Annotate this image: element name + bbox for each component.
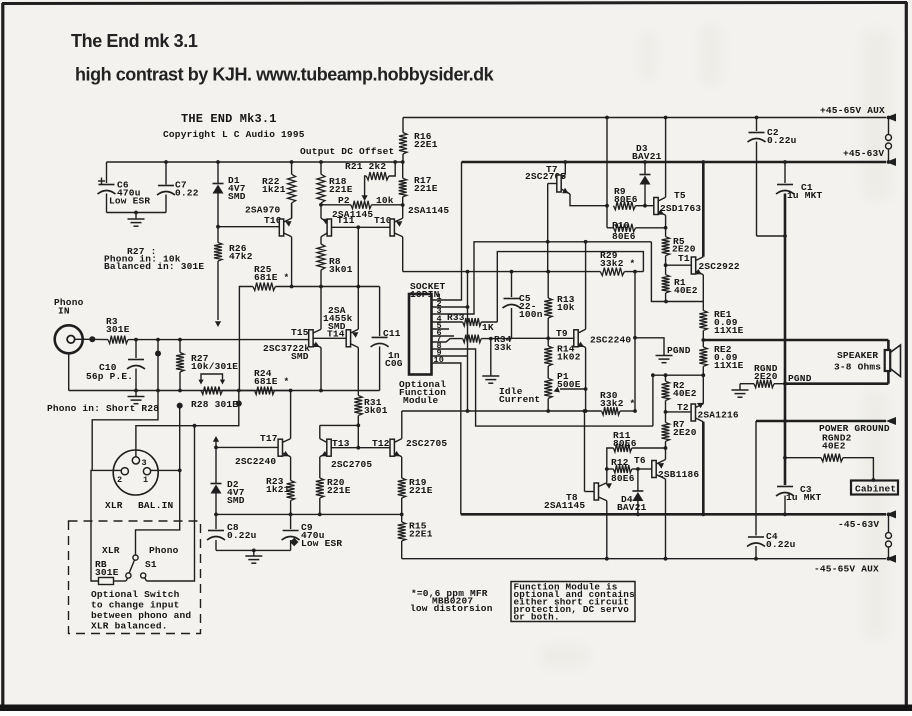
wire: output DC offset row [107,161,404,163]
svg-text:3k01: 3k01 [329,264,353,275]
wire pin1 to +rail [432,162,462,300]
wire R2 node row [653,374,703,376]
-45-63V rail [461,513,886,516]
resistor R24 [255,387,275,395]
wire R29/R30 column [634,272,636,411]
resistor R27 [179,340,181,353]
svg-text:33k: 33k [494,342,512,353]
wire phono ground to lower row [68,353,70,390]
svg-text:T17: T17 [260,433,278,444]
resistor R14 [547,338,549,346]
svg-text:XLR: XLR [105,500,123,511]
svg-text:R12: R12 [611,457,629,468]
svg-text:1k21: 1k21 [262,184,286,195]
resistor R3 [108,336,128,344]
wire T16 base [218,226,279,228]
svg-text:3-8 Ohms: 3-8 Ohms [834,362,881,373]
svg-text:2SA1145: 2SA1145 [544,500,585,511]
zener D1 [217,162,219,183]
svg-text:2SC2705: 2SC2705 [406,438,447,449]
svg-text:1k21: 1k21 [266,484,290,495]
resistor R9 [614,202,636,210]
capacitor C5 [511,272,513,297]
capacitor C11 [379,287,381,337]
svg-text:1K: 1K [482,322,494,333]
svg-text:Phono in: Short R28: Phono in: Short R28 [47,403,159,414]
wire C8 to R15 row [216,513,402,515]
svg-text:C0G: C0G [385,358,403,369]
svg-text:Output DC Offset: Output DC Offset [300,146,394,157]
XLR connector [113,450,158,495]
resistor R20 [316,478,324,498]
R28 short bracket [201,374,223,381]
svg-text:1u MKT: 1u MKT [787,190,823,201]
resistor R26 [217,227,219,243]
svg-text:The End mk 3.1: The End mk 3.1 [71,31,198,51]
svg-text:Optional Switch: Optional Switch [91,589,180,600]
svg-text:301E: 301E [95,567,119,578]
svg-text:T10: T10 [374,215,392,226]
svg-text:PGND: PGND [788,373,812,384]
wire T11/T10 base row [332,226,391,228]
optional switch dashed box [69,521,201,634]
svg-text:1k02: 1k02 [557,352,581,363]
resistor RE2 [699,347,707,366]
speaker [885,350,891,371]
wire T7 base column [547,184,549,272]
svg-text:1u MKT: 1u MKT [786,492,822,503]
resistor R21 [366,172,389,180]
svg-text:10k: 10k [557,302,575,313]
+45-65V AUX rail [403,117,886,119]
svg-text:P2: P2 [338,195,350,206]
svg-text:47k2: 47k2 [229,251,253,262]
resistor R33 [481,321,497,323]
svg-text:40E2: 40E2 [822,441,846,452]
wire row A down to R1 node [651,242,703,302]
-45-65V AUX rail [402,558,886,560]
resistor R5 [665,228,667,237]
capacitor C4 [755,421,757,536]
wire phono switch column [147,426,195,581]
svg-text:IN: IN [58,306,70,317]
svg-text:2E20: 2E20 [673,427,697,438]
svg-text:80E6: 80E6 [612,231,636,242]
svg-text:2SD1763: 2SD1763 [660,203,701,214]
page border frame [2,3,907,4]
svg-text:681E *: 681E * [254,272,289,283]
svg-text:2SC2240: 2SC2240 [590,335,631,346]
capacitor C2 [755,116,759,120]
svg-text:2SC2705: 2SC2705 [331,459,372,470]
svg-text:2: 2 [117,475,122,485]
wire pin10 to -63V rail [432,363,461,514]
wire P1 wiper [560,388,586,390]
function module note box [511,582,635,622]
wire T14 column [357,227,359,329]
capacitor C6 [106,162,108,183]
svg-text:S1: S1 [145,559,157,570]
svg-text:R28 301E: R28 301E [191,399,238,410]
svg-text:T1: T1 [678,253,690,264]
resistor R28 [201,387,223,395]
zener D2 [215,447,217,483]
resistor R2 [665,375,667,381]
wire pin8 to T13 row [432,349,653,426]
svg-text:0.22u: 0.22u [227,530,257,541]
svg-text:+45-65V AUX: +45-65V AUX [820,105,885,116]
potentiometer P1 [544,378,552,398]
scan bleed-through ghosts [540,25,892,667]
svg-text:PGND: PGND [667,345,691,356]
PGND stub [635,338,664,355]
resistor R11 [613,444,631,452]
svg-text:3: 3 [142,458,147,468]
resistor R16 [402,118,404,133]
wire row A (pin3/T9 collector) [432,242,652,314]
connector link top [887,116,891,120]
resistor R13 [547,272,549,298]
resistor R29 [600,268,624,276]
svg-text:2SA970: 2SA970 [245,205,281,216]
svg-text:XLR balanced.: XLR balanced. [91,621,168,632]
svg-text:80E6: 80E6 [611,473,635,484]
cabinet box [851,481,898,495]
ground idle [490,339,492,376]
svg-text:40E2: 40E2 [673,388,697,399]
resistor RGND [740,383,754,385]
svg-text:to change input: to change input [91,600,180,611]
svg-text:33k2 *: 33k2 * [600,398,635,409]
svg-text:SPEAKER: SPEAKER [837,350,878,361]
wire PGND main column [784,194,787,486]
resistor R8 box [91,470,99,581]
socket pin stubs [432,328,450,330]
svg-text:80E6: 80E6 [613,438,637,449]
svg-text:221E: 221E [327,485,351,496]
resistor R19 [398,478,406,498]
ground under C10 [135,391,137,397]
switch S1 [133,555,138,560]
svg-text:Copyright L C Audio 1995: Copyright L C Audio 1995 [163,129,305,140]
svg-text:681E *: 681E * [254,376,289,387]
+45-63V rail [462,161,887,164]
svg-text:2SA1145: 2SA1145 [408,205,449,216]
wire pin2 column [467,272,469,411]
capacitor C7 [165,162,167,185]
svg-text:THE END Mk3.1: THE END Mk3.1 [181,112,277,126]
svg-text:R10: R10 [612,220,630,231]
svg-text:-45-63V: -45-63V [838,519,879,530]
resistor R1 [665,265,667,275]
svg-text:XLR: XLR [102,545,120,556]
wire T17 base node [214,446,218,450]
svg-text:80E6: 80E6 [614,194,638,205]
wire T13 collector row [320,424,359,426]
svg-text:Low ESR: Low ESR [301,538,342,549]
wire bootstrap column [606,118,608,206]
svg-text:2E20: 2E20 [754,371,778,382]
svg-text:11X1E: 11X1E [714,325,744,336]
svg-text:+45-63V: +45-63V [843,148,884,159]
wire T8 base column [584,411,586,492]
POWER GROUND rail [756,420,886,423]
svg-text:100n: 100n [519,309,543,320]
svg-text:SMD: SMD [291,351,309,362]
wire C6/C7 bottom [107,212,167,214]
resistor R8 [317,244,325,270]
svg-text:BAV21: BAV21 [632,151,662,162]
wire T13/T12 base row [331,447,390,449]
svg-text:-45-65V AUX: -45-65V AUX [814,564,879,575]
resistor RE1 [702,302,704,311]
resistor R15 [398,522,406,541]
resistor R23 [287,481,295,501]
zener D3 [644,162,646,174]
svg-text:10k/301E: 10k/301E [191,361,238,372]
svg-text:T5: T5 [674,190,686,201]
resistor R31 [357,348,359,396]
wire pin8 riser to R2 node [652,375,654,426]
svg-text:56p P.E.: 56p P.E. [86,371,133,382]
svg-text:BAV21: BAV21 [617,502,647,513]
svg-text:40E2: 40E2 [674,285,698,296]
resistor R7 [665,412,667,423]
svg-text:33k2 *: 33k2 * [600,258,635,269]
wire S1 common column [136,406,180,555]
wire VAS rail [403,271,601,273]
ground RGND [739,384,741,390]
wire T9 base row [512,337,575,339]
resistor R12 [613,465,631,473]
svg-text:221E: 221E [409,485,433,496]
capacitor C3 [777,486,793,488]
resistor R30 [602,407,620,415]
wire pin9 [432,355,468,357]
svg-text:221E: 221E [414,183,438,194]
svg-text:3k01: 3k01 [364,405,388,416]
wire C8/C9 bottom [216,549,291,551]
capacitor C9 [290,514,292,529]
svg-text:BAL.IN: BAL.IN [138,500,174,511]
svg-text:T11: T11 [337,215,355,226]
ground under C6/C7 [135,213,137,220]
svg-text:or both.: or both. [514,612,560,623]
capacitor C1 [783,160,787,164]
svg-text:1: 1 [143,475,148,485]
svg-text:0.22u: 0.22u [766,539,796,550]
resistor R18 [320,162,322,174]
main input wire [89,336,95,342]
potentiometer P2 [321,204,351,206]
svg-text:Balanced in: 301E: Balanced in: 301E [104,261,204,272]
wire speaker bottom / PGND row [887,371,890,384]
svg-text:between phono and: between phono and [91,610,191,621]
svg-text:low distorsion: low distorsion [410,603,493,614]
resistor R10 [606,206,608,228]
svg-text:T15: T15 [291,327,309,338]
resistor R34 [432,339,463,342]
svg-text:SMD: SMD [228,191,246,202]
resistor R17 [402,162,404,178]
svg-text:Current: Current [499,394,540,405]
svg-text:0.22u: 0.22u [767,135,797,146]
svg-text:221E: 221E [329,184,353,195]
capacitor C8 [215,514,217,529]
wire feedback row 411 [402,410,602,412]
svg-text:SMD: SMD [227,495,245,506]
svg-text:2SA1216: 2SA1216 [698,410,739,421]
lower wire row [69,390,380,392]
zener D4 [637,469,639,491]
svg-text:301E: 301E [106,324,130,335]
wire XLR pin3 feed [136,391,239,458]
wire big dots column (x158) [92,340,158,471]
resistor R22 [291,162,293,174]
output rail to speaker [703,339,888,342]
svg-text:2SC2922: 2SC2922 [699,261,740,272]
svg-text:T12: T12 [372,438,390,449]
svg-text:Low ESR: Low ESR [109,196,150,207]
connector link bottom [887,513,891,517]
svg-text:R21 2k2: R21 2k2 [345,161,386,172]
wire row B to pin4 [497,252,643,322]
svg-text:22E1: 22E1 [409,529,433,540]
svg-text:T9: T9 [556,328,568,339]
svg-text:Cabinet: Cabinet [855,484,896,495]
svg-text:Phono: Phono [149,545,179,556]
ground C8/C9 [253,550,255,556]
svg-text:22E1: 22E1 [414,139,438,150]
svg-text:10k: 10k [376,195,394,206]
svg-text:Module: Module [403,395,439,406]
wire XLR pin2 row [92,469,121,471]
svg-text:T6: T6 [634,455,646,466]
svg-text:2SC2240: 2SC2240 [235,456,276,467]
svg-text:C11: C11 [383,328,401,339]
capacitor C10 [135,340,137,358]
svg-text:0.22: 0.22 [175,188,199,199]
wire XLR pin1 row [151,469,180,471]
svg-text:high contrast by KJH. www.tube: high contrast by KJH. www.tubeamp.hobbys… [75,65,495,85]
svg-text:11X1E: 11X1E [714,360,744,371]
wire base row T13/T12 [357,425,359,447]
